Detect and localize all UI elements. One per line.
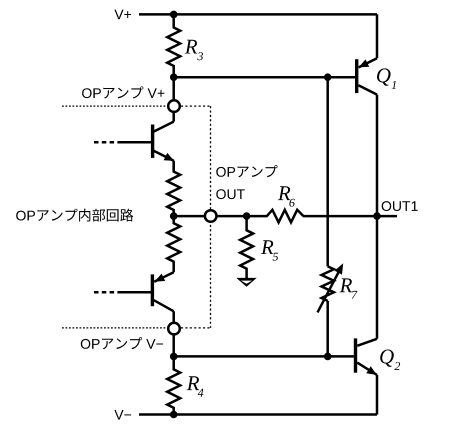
label op-amp V- (OPアンプ V−) (81, 339, 91, 349)
label Q1 (377, 68, 391, 85)
wire V+ top rail (139, 13, 377, 16)
transistor Q2 emitter arrow (NPN) (366, 366, 377, 375)
junction at R4 top (170, 353, 178, 361)
node circle op-amp V- (168, 323, 180, 335)
transistor (lower) base dashed continuation (94, 291, 114, 294)
wire op-amp OUT node to R6 (217, 215, 268, 218)
node circle op-amp OUT (205, 210, 217, 222)
wire Q2 emitter down to V- rail (376, 375, 379, 415)
label R4 (187, 376, 200, 390)
transistor (lower) collector lead to op-amp V- node (154, 300, 174, 322)
dotted boundary of op-amp internal circuit - bottom edge (62, 327, 167, 329)
transistor (upper) base lead (117, 141, 152, 144)
junction at V- rail and R4 (170, 411, 178, 419)
junction at R3 bottom (170, 73, 178, 81)
wire R3 bottom to op-amp V+ node (172, 77, 175, 99)
ground symbol below R5 (236, 278, 256, 287)
dotted boundary of op-amp internal circuit - top edge (62, 105, 167, 107)
resistor R7 (variable) (322, 266, 334, 301)
label OUT1 (382, 201, 392, 211)
label op-amp OUT line 2 (OUT) (216, 189, 226, 199)
wire R7 branch upper segment from Q1 base rail (326, 77, 329, 266)
label R6 (278, 186, 291, 200)
transistor (op-amp internal lower PNP) base bar (151, 274, 154, 306)
transistor Q1 emitter lead from V+ (359, 58, 377, 67)
wire R6 to OUT1 stub (303, 215, 397, 218)
wire R3 bottom rail to Q1 base (174, 76, 355, 79)
transistor (upper) collector lead to op-amp V+ node (153, 112, 173, 132)
transistor Q1 collector lead (358, 85, 377, 94)
transistor (lower) emitter lead from internal resistor (154, 262, 174, 282)
dotted boundary of op-amp internal circuit - right edge (210, 106, 212, 328)
wire Q1 collector down to OUT1 junction (376, 95, 379, 217)
junction OUT1 (373, 212, 381, 220)
resistor R6 (267, 210, 304, 223)
transistor (op-amp internal upper NPN) base bar (151, 125, 154, 158)
transistor Q1 emitter arrow (PNP, pointing to base bar) (359, 59, 370, 67)
wire OUT1 junction down to Q2 collector (376, 216, 379, 339)
wire op-amp V- node down to R4 junction (172, 335, 175, 357)
junction at R5 top (243, 212, 251, 220)
label R3 (185, 40, 198, 54)
label Q2 (380, 350, 394, 367)
arrow of variable resistor R7 (318, 271, 340, 313)
transistor Q2 emitter lead (357, 363, 377, 375)
wire R4 top rail to Q2 base (174, 355, 354, 358)
transistor Q2 base bar (354, 338, 357, 372)
node circle op-amp V+ (168, 100, 180, 112)
resistor R4 (167, 356, 180, 414)
junction at Q1 base rail and R7 branch (324, 73, 332, 81)
junction at V+ rail and R3 (170, 11, 178, 19)
resistor (unlabeled, op-amp internal lower) (167, 216, 180, 262)
wire V- bottom rail (139, 413, 377, 416)
transistor Q1 base bar (355, 59, 358, 93)
resistor (unlabeled, op-amp internal upper) (167, 161, 180, 216)
label op-amp OUT line 1 (OPアンプ) (216, 167, 226, 177)
label V- (114, 410, 123, 420)
wire from V+ rail down to Q1 emitter (376, 14, 379, 58)
label V+ (114, 10, 123, 20)
label op-amp V+ (OPアンプ V+) (82, 88, 92, 98)
wire op-amp OUT node left segment (174, 215, 205, 218)
wire R7 branch lower segment to Q2 base rail (326, 301, 329, 357)
resistor R3 (167, 14, 180, 77)
transistor (upper) emitter lead (153, 151, 173, 172)
junction at Q2 base rail and R7 branch (324, 353, 332, 361)
transistor (lower) emitter arrow (PNP, pointing to base bar) (155, 274, 166, 282)
transistor (lower) base lead (117, 291, 151, 294)
resistor R5 (240, 216, 253, 278)
transistor Q2 collector lead (357, 339, 377, 346)
label op-amp internal circuit (OPアンプ内部回路) (16, 211, 26, 221)
label R5 (261, 240, 274, 254)
junction at internal resistors / OUT (170, 212, 178, 220)
label R7 (340, 278, 353, 292)
transistor (upper) emitter arrow (NPN) (164, 153, 175, 161)
transistor (upper) base dashed continuation (94, 141, 114, 144)
